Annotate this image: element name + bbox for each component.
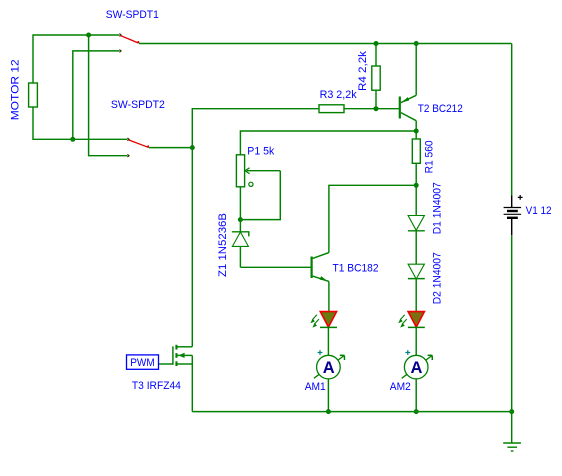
label V1 12 [526, 205, 552, 217]
node junction dot R4 top [374, 41, 379, 46]
svg-text:Z1 1N5236B: Z1 1N5236B [217, 213, 229, 277]
node junction dot T2 collector [414, 129, 419, 134]
label AM2 [390, 381, 411, 393]
svg-text:SW-SPDT1: SW-SPDT1 [106, 9, 159, 21]
node junction dot bottom B [70, 137, 75, 142]
svg-text:T2 BC212: T2 BC212 [418, 103, 463, 115]
wire P1 top lead to T2 collector [240, 131, 416, 155]
potentiometer P1 body [236, 155, 280, 187]
label SW-SPDT2 [111, 99, 165, 111]
transistor T1 BC182 NPN [312, 185, 417, 311]
wire node C vertical down to T3 drain [191, 148, 193, 347]
wire motor top lead [33, 35, 119, 83]
node junction dot AM2 bottom [414, 409, 419, 414]
wire bottom rail [192, 411, 511, 413]
svg-text:SW-SPDT2: SW-SPDT2 [111, 99, 165, 111]
wire P1 bottom lead [239, 187, 241, 220]
battery V1 [504, 195, 523, 235]
switch SW-SPDT2 [127, 138, 148, 157]
wire vertical from node B to SPDT1 lower throw [73, 51, 120, 139]
svg-text:MOTOR 12: MOTOR 12 [9, 59, 21, 120]
ammeter AM1 [314, 350, 345, 379]
node junction dot bottom right [509, 409, 514, 414]
node junction dot P1 bottom [238, 217, 243, 222]
PWM source box [127, 355, 159, 369]
label D2 1N4007 [432, 252, 444, 304]
wire P1 wiper return [240, 171, 280, 220]
node junction dot AM1 bottom [326, 409, 331, 414]
ammeter AM2 [402, 350, 433, 379]
wire vertical from node A to SPDT2 lower throw [89, 35, 128, 156]
label T3 IRFZ44 [132, 380, 181, 392]
svg-text:T1 BC182: T1 BC182 [333, 262, 379, 274]
wire Z1 to T1 base [240, 266, 311, 268]
node junction dot C [190, 145, 195, 150]
node junction dot top A [86, 33, 91, 38]
diode Z1 zener [232, 220, 249, 268]
resistor R4 body [372, 66, 380, 90]
motor M1 MOTOR 12 body [29, 83, 38, 107]
svg-text:P1 5k: P1 5k [247, 146, 274, 158]
svg-text:A: A [323, 359, 335, 377]
LED2 [398, 312, 425, 328]
svg-text:D1 1N4007: D1 1N4007 [432, 182, 444, 234]
label D1 1N4007 [432, 182, 444, 234]
wire R4 top lead [375, 44, 377, 67]
wire right rail bottom [511, 235, 513, 411]
diode D1 1N4007 [408, 185, 425, 231]
label T1 BC182 [333, 262, 379, 274]
svg-text:T3 IRFZ44: T3 IRFZ44 [132, 380, 181, 392]
transistor T2 BC212 PNP [400, 44, 416, 132]
svg-text:R1 560: R1 560 [423, 140, 435, 173]
label R1 560 [423, 140, 435, 173]
svg-text:PWM: PWM [130, 357, 155, 369]
wire LED1 to AM1 [327, 327, 329, 355]
label AM1 [305, 381, 326, 393]
wire R1 bottom lead [415, 163, 417, 185]
wire R1 top lead [415, 131, 417, 139]
node junction dot R1 bottom [414, 183, 419, 188]
node junction dot R4 bottom [374, 106, 379, 111]
wire R4 bottom lead [375, 90, 377, 109]
wire SPDT1 common to top rail [139, 43, 512, 45]
label Z1 1N5236B [217, 213, 229, 277]
diode D2 1N4007 [408, 231, 425, 312]
label P1 5k [247, 146, 274, 158]
label R3 2,2k [320, 89, 357, 101]
ground [503, 412, 521, 451]
label T2 BC212 [418, 103, 463, 115]
svg-text:V1 12: V1 12 [526, 205, 552, 217]
resistor R3 body [319, 105, 344, 113]
label MOTOR 12 [9, 59, 21, 120]
svg-text:D2 1N4007: D2 1N4007 [432, 252, 444, 304]
LED1 [310, 312, 337, 328]
wire AM2 to bottom rail [415, 379, 417, 412]
svg-text:A: A [411, 359, 423, 377]
resistor R1 body [412, 139, 420, 163]
wire LED2 to AM2 [415, 327, 417, 355]
wire SPDT2 common to node C [149, 147, 193, 149]
node junction dot T2 emitter on top rail [414, 41, 419, 46]
switch SW-SPDT1 [119, 34, 138, 53]
wire node C vertical up to R3 line [192, 109, 319, 148]
svg-text:AM2: AM2 [390, 381, 411, 393]
svg-text:R4 2,2k: R4 2,2k [357, 50, 369, 91]
svg-text:AM1: AM1 [305, 381, 326, 393]
wire motor bottom lead [33, 107, 127, 139]
label SW-SPDT1 [106, 9, 159, 21]
svg-text:R3 2,2k: R3 2,2k [320, 89, 357, 101]
wire right rail top [511, 44, 513, 196]
wire R3 right to T2 base [344, 108, 399, 110]
wire AM1 to bottom rail [327, 379, 329, 412]
transistor T3 IRFZ44 NMOS [159, 345, 193, 412]
label R4 2,2k [357, 50, 369, 91]
